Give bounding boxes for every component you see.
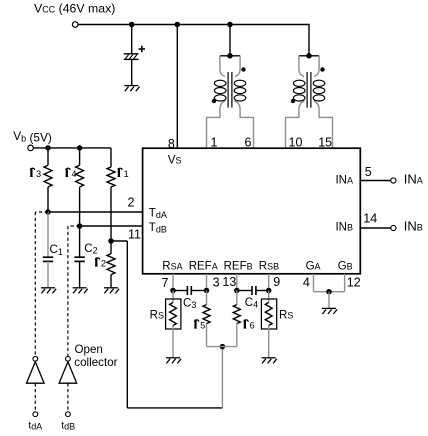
svg-text:RS: RS: [279, 310, 293, 322]
terminal tdA: [33, 412, 38, 417]
pin 13 label: [222, 275, 236, 289]
svg-text:Vb (5V): Vb (5V): [13, 129, 52, 145]
svg-text:11: 11: [128, 227, 141, 241]
svg-text:4: 4: [303, 276, 310, 290]
capacitor C2: [74, 226, 84, 288]
resistor r6: [233, 291, 240, 347]
pin 13 stub: [236, 274, 238, 291]
label INB inside: [335, 221, 353, 233]
svg-text:tdB: tdB: [61, 420, 75, 431]
svg-text:TdA: TdA: [149, 208, 167, 221]
svg-text:C4: C4: [245, 297, 258, 310]
wire GA-GB connector: [314, 291, 345, 293]
wire pin 2 TdA: [48, 211, 143, 213]
terminal Vcc: [72, 22, 78, 28]
ground below Rs right: [262, 358, 277, 364]
pin 15 label: [318, 136, 332, 150]
svg-text:INB: INB: [335, 221, 353, 233]
resistor r5: [203, 291, 210, 347]
junction dot pin11 node: [77, 223, 83, 229]
terminal Vb: [28, 145, 34, 151]
svg-text:2: 2: [128, 195, 135, 209]
label TdA: [149, 208, 167, 221]
pin 7 stub: [172, 274, 174, 291]
pin 5 label: [365, 165, 372, 179]
pin 11 label: [128, 227, 141, 241]
junction dot pin2 node: [45, 209, 51, 215]
label tdB: [61, 420, 75, 431]
pin 7 label: [162, 276, 169, 290]
pin 9 label: [273, 275, 280, 289]
label INA outside: [404, 172, 423, 187]
capacitor C0 electrolytic: [124, 46, 145, 60]
svg-text:tdA: tdA: [28, 420, 42, 431]
svg-text:VCC (46V max): VCC (46V max): [34, 2, 115, 16]
junction dot Vcc-C0: [129, 22, 135, 28]
pin 1 label: [211, 136, 218, 150]
svg-text:13: 13: [222, 275, 236, 289]
wire rail corner to winding B: [308, 24, 310, 56]
svg-text:12: 12: [347, 276, 361, 290]
svg-text:2: 2: [101, 259, 106, 269]
svg-text:C3: C3: [183, 298, 196, 311]
wire Vcc to capacitor: [131, 25, 133, 54]
wire r5-r6 connector: [207, 346, 237, 348]
pin 12 label: [347, 276, 361, 290]
label C3: [183, 298, 196, 311]
svg-text:TdB: TdB: [149, 222, 167, 235]
resistor r4: [76, 148, 84, 226]
pin 9 stub: [268, 274, 270, 291]
capacitor C4: [237, 286, 269, 295]
svg-text:1: 1: [124, 169, 129, 179]
dashed wire buffer A to tdA terminal: [34, 383, 36, 411]
svg-text:8: 8: [168, 137, 175, 151]
junction dot pin 3: [204, 288, 210, 294]
svg-text:REFB: REFB: [224, 261, 253, 273]
label r2: [95, 258, 106, 269]
label REFA: [189, 261, 218, 273]
junction dot pin 7: [170, 288, 176, 294]
svg-text:7: 7: [162, 276, 169, 290]
pin 14 wire INB: [360, 227, 390, 229]
junction dot winding A branch: [227, 22, 233, 28]
label r1: [118, 168, 129, 179]
junction dot r4 top: [77, 145, 83, 151]
resistor r3: [44, 148, 52, 212]
resistor r1: [107, 148, 115, 241]
label r5: [194, 320, 205, 331]
label Vb (5V): [13, 129, 52, 145]
open collector buffer B circle: [66, 356, 71, 361]
wire r1-r2 node to feedback: [111, 241, 222, 408]
svg-text:14: 14: [363, 211, 377, 225]
ground below r2: [104, 288, 119, 294]
wire feedback riser: [221, 347, 223, 408]
svg-text:RSB: RSB: [259, 261, 279, 273]
wire Vcc to pin 8: [176, 25, 178, 149]
svg-text:GA: GA: [306, 261, 321, 273]
terminal INB: [391, 225, 396, 230]
pin 5 wire INA: [360, 180, 390, 182]
label tdA: [28, 420, 42, 431]
pin 4 stub: [313, 274, 315, 292]
pin 3 stub: [206, 274, 208, 291]
label REFB: [224, 261, 253, 273]
capacitor C1: [43, 212, 53, 288]
wire rail to winding A: [229, 25, 231, 56]
terminal INA: [391, 178, 396, 183]
label INA inside: [335, 174, 353, 186]
svg-text:5: 5: [365, 165, 372, 179]
label Vs: [168, 155, 182, 167]
label GB: [338, 261, 353, 273]
label Rs right: [279, 310, 293, 322]
svg-text:3: 3: [36, 169, 41, 179]
pin 10 label: [289, 136, 303, 150]
pin 3 label: [213, 276, 220, 290]
label r6: [244, 320, 255, 331]
pin 12 stub: [344, 274, 346, 292]
junction dot Vs branch: [175, 22, 181, 28]
label r4: [66, 168, 77, 179]
ground below C2: [73, 288, 88, 294]
resistor Rs right: [261, 291, 276, 358]
label RSB: [259, 261, 279, 273]
svg-text:9: 9: [273, 275, 280, 289]
svg-text:5: 5: [200, 321, 205, 331]
pin 2 label: [128, 195, 135, 209]
svg-text:Open: Open: [75, 343, 103, 356]
svg-text:C2: C2: [84, 243, 97, 256]
junction dot GA-GB: [326, 289, 332, 295]
pin 8 label: [168, 137, 175, 151]
label Rs left: [150, 310, 164, 322]
wire Vcc rail: [78, 24, 309, 26]
label C4: [245, 297, 258, 310]
open collector buffer A circle: [33, 356, 38, 361]
label Open collector: [74, 343, 117, 369]
wire capacitor to ground: [131, 59, 133, 85]
label C2: [84, 243, 97, 256]
svg-text:4: 4: [72, 169, 77, 179]
transformer winding B: [286, 53, 333, 148]
open collector buffer A: [27, 362, 45, 384]
pin 6 label: [245, 136, 252, 150]
open collector buffer B: [59, 362, 77, 384]
pin 4 label: [303, 276, 310, 290]
ground below C0: [124, 86, 139, 92]
junction dot r5-r6 node: [220, 344, 226, 350]
ground below C1: [41, 288, 56, 294]
label INB outside: [404, 219, 423, 234]
label TdB: [149, 222, 167, 235]
wire pin 11 TdB: [80, 225, 143, 227]
label RSA: [162, 261, 182, 273]
svg-text:RS: RS: [150, 310, 164, 322]
dashed wire tdA: [35, 212, 48, 356]
wire GA-GB to ground: [328, 292, 330, 309]
label r3: [30, 168, 41, 179]
dashed wire buffer B to tdB terminal: [67, 383, 69, 411]
ground below GA-GB: [322, 308, 337, 314]
svg-text:INA: INA: [335, 174, 353, 186]
svg-text:REFA: REFA: [189, 261, 218, 273]
pin 14 label: [363, 211, 377, 225]
junction dot r3 top: [45, 145, 51, 151]
junction dot pin 13: [234, 288, 240, 294]
junction dot pin 9: [266, 288, 272, 294]
junction dot r1-r2 node: [108, 238, 114, 244]
transformer winding A: [207, 53, 254, 148]
terminal tdB: [66, 412, 71, 417]
resistor r2: [107, 241, 115, 288]
resistor Rs left: [166, 291, 181, 358]
label GA: [306, 261, 321, 273]
svg-text:VS: VS: [168, 155, 182, 167]
svg-text:6: 6: [250, 321, 255, 331]
wire Vb rail: [34, 147, 112, 149]
op-amp U1 IC box: [143, 148, 361, 274]
svg-text:3: 3: [213, 276, 220, 290]
capacitor C3: [173, 286, 207, 295]
svg-text:collector: collector: [74, 356, 117, 369]
svg-text:GB: GB: [338, 261, 353, 273]
ground below Rs left: [166, 358, 181, 364]
label C1: [50, 244, 63, 257]
svg-text:RSA: RSA: [162, 261, 182, 273]
dashed wire tdB: [68, 226, 80, 356]
label Vcc (46V max): [34, 2, 115, 16]
